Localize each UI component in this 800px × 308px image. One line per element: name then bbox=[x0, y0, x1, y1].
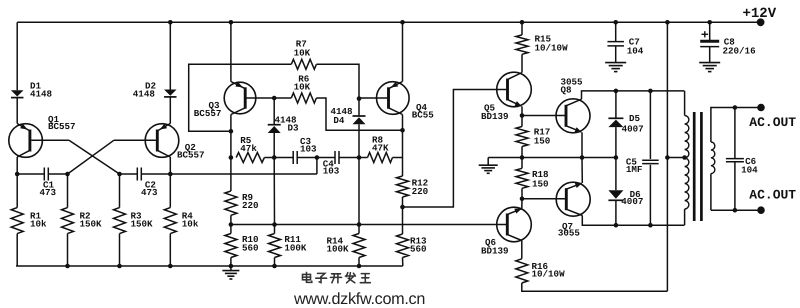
transistor Q1 BC557 bbox=[9, 124, 43, 158]
svg-text:4007: 4007 bbox=[621, 196, 643, 207]
wire Q6 base line bbox=[231, 224, 507, 226]
resistor R15 10/10W bbox=[521, 22, 523, 35]
resistor R10 560 bbox=[230, 225, 232, 234]
wire Q2 collector down bbox=[169, 157, 171, 174]
diode D4 4148 bbox=[358, 99, 360, 116]
node D5/D6 junction bbox=[614, 155, 619, 160]
node C5 bottom junction bbox=[648, 223, 653, 228]
wire cross-couple Q2 base to R2 node bbox=[68, 140, 115, 174]
resistor R4 10k bbox=[169, 174, 171, 208]
svg-text:473: 473 bbox=[40, 187, 57, 198]
node C1 right junction bbox=[65, 172, 70, 177]
node C5 top junction bbox=[648, 89, 653, 94]
capacitor C5 1MF bbox=[649, 91, 651, 159]
wire +12V riser bbox=[666, 22, 668, 291]
wire R7 right to Q4 base node bbox=[316, 64, 359, 98]
svg-text:47k: 47k bbox=[240, 143, 257, 154]
transformer T1 secondary bbox=[710, 107, 712, 142]
svg-text:+12V: +12V bbox=[743, 6, 777, 22]
node Q4 rail junction bbox=[400, 20, 405, 25]
wire rail to Q4 emitter bbox=[402, 22, 404, 81]
svg-text:BD139: BD139 bbox=[481, 111, 509, 122]
node C6 bottom bbox=[733, 208, 738, 213]
transistor Q8 3055 bbox=[556, 99, 590, 133]
capacitor C1 473 bbox=[17, 173, 44, 175]
node rail R3 bbox=[117, 264, 122, 269]
resistor R12 220 bbox=[397, 176, 409, 197]
resistor R8 47K bbox=[359, 157, 368, 159]
resistor R11 100K bbox=[273, 158, 275, 225]
terminal AC.OUT bottom bbox=[757, 206, 765, 214]
resistor R17 150 bbox=[521, 116, 523, 127]
node Q3 collector bottom junction bbox=[229, 155, 234, 160]
svg-text:150: 150 bbox=[534, 136, 551, 147]
transistor Q5 BD139 bbox=[497, 72, 532, 107]
node C7 rail junction bbox=[613, 20, 618, 25]
svg-text:560: 560 bbox=[242, 243, 259, 254]
wire Q8 emitter down bbox=[581, 132, 583, 157]
resistor R13 560 bbox=[402, 207, 404, 234]
wire center tap stub bbox=[667, 157, 684, 159]
transistor Q2 BC557 bbox=[145, 124, 179, 158]
svg-text:BC557: BC557 bbox=[177, 149, 205, 160]
node transformer center tap bbox=[682, 155, 687, 160]
svg-text:10K: 10K bbox=[294, 82, 311, 93]
wire D1 to Q1 emitter bbox=[16, 98, 18, 124]
node Q3 base junction bbox=[272, 96, 277, 101]
svg-text:D4: D4 bbox=[333, 115, 345, 126]
node R14 top junction bbox=[357, 222, 362, 227]
node C3/C4 midpoint bbox=[315, 155, 320, 160]
node C4 right / D4 anode junction bbox=[357, 155, 362, 160]
terminal AC.OUT top bbox=[757, 104, 765, 112]
node R17/R18 junction bbox=[520, 155, 525, 160]
wire R16 bottom to +12V riser bbox=[522, 283, 668, 291]
node R3 top junction bbox=[117, 172, 122, 177]
wire to Q7 base bbox=[522, 198, 565, 200]
ground symbol center line bbox=[487, 158, 489, 166]
wire R7 feedback loop left bbox=[189, 64, 292, 131]
svg-text:103: 103 bbox=[323, 166, 340, 177]
capacitor C2 473 bbox=[120, 173, 138, 175]
svg-text:4148: 4148 bbox=[133, 89, 156, 100]
svg-text:4148: 4148 bbox=[30, 89, 53, 100]
svg-text:100K: 100K bbox=[284, 243, 307, 254]
wire rail to D2 bbox=[169, 22, 171, 89]
transistor Q7 3055 bbox=[556, 182, 590, 216]
svg-text:D3: D3 bbox=[288, 122, 300, 133]
diode D6 4007 bbox=[615, 158, 617, 191]
node D4 top / Q4 base bbox=[357, 96, 362, 101]
wire secondary bottom to AC.OUT bbox=[711, 209, 761, 211]
wire Q6 emitter up bbox=[521, 199, 523, 209]
resistor R2 150K bbox=[67, 174, 69, 208]
svg-text:150K: 150K bbox=[131, 218, 154, 229]
wire Q8 collector to transformer top bbox=[582, 91, 685, 99]
node riser / center tap junction bbox=[665, 155, 670, 160]
transformer T1 core bbox=[693, 112, 696, 221]
node Q2 collector junction bbox=[168, 172, 173, 177]
svg-text:560: 560 bbox=[410, 244, 427, 255]
node R15 rail junction bbox=[520, 20, 525, 25]
svg-text:AC.OUT: AC.OUT bbox=[749, 115, 796, 130]
svg-text:150: 150 bbox=[532, 179, 549, 190]
svg-text:104: 104 bbox=[741, 164, 758, 175]
wire left drop to D1 bbox=[16, 22, 18, 90]
diode D5 4007 bbox=[615, 91, 617, 118]
svg-text:10k: 10k bbox=[182, 218, 199, 229]
svg-text:100K: 100K bbox=[327, 244, 350, 255]
wire top +12V rail bbox=[17, 21, 760, 23]
wire rail to Q3 emitter bbox=[230, 22, 232, 81]
ground symbol C7 bbox=[615, 57, 617, 63]
svg-text:3055: 3055 bbox=[558, 228, 581, 239]
svg-text:10/10W: 10/10W bbox=[532, 269, 566, 280]
svg-text:104: 104 bbox=[627, 46, 644, 57]
node rail R4 bbox=[168, 264, 173, 269]
wire Q5 emitter to Q8 base bbox=[522, 115, 565, 117]
resistor R18 150 bbox=[521, 158, 523, 169]
node C6 top bbox=[733, 105, 738, 110]
svg-text:BC557: BC557 bbox=[48, 121, 76, 132]
node D6 bottom junction bbox=[614, 223, 619, 228]
capacitor C6 104 bbox=[734, 108, 736, 159]
svg-text:BC55: BC55 bbox=[412, 110, 435, 121]
wire cross-couple Q1 base to R3 node bbox=[69, 140, 120, 174]
diode D3 4148 bbox=[273, 98, 275, 125]
node +12V riser rail junction bbox=[665, 20, 670, 25]
node C8 rail junction bbox=[707, 20, 712, 25]
svg-text:BD139: BD139 bbox=[481, 245, 509, 256]
node D2 rail junction bbox=[168, 20, 173, 25]
svg-text:220: 220 bbox=[242, 200, 259, 211]
node Q1 collector junction bbox=[15, 172, 20, 177]
transformer T1 primary bbox=[684, 91, 686, 116]
wire emitter center line bbox=[488, 157, 582, 159]
node rail R14 bbox=[357, 264, 362, 269]
node D5 top junction bbox=[614, 89, 619, 94]
svg-text:10k: 10k bbox=[30, 218, 47, 229]
resistor R6 10K bbox=[274, 97, 291, 99]
resistor R3 150K bbox=[119, 174, 121, 208]
svg-text:220: 220 bbox=[412, 186, 429, 197]
node Q3 rail junction bbox=[229, 20, 234, 25]
resistor R16 10/10W bbox=[521, 241, 523, 259]
node R12 bottom junction bbox=[400, 205, 405, 210]
wire bottom ground rail bbox=[16, 265, 403, 267]
node Q5 emitter junction bbox=[521, 107, 523, 116]
diode D2 bbox=[164, 90, 177, 96]
node Q7/Q8 emitter junction bbox=[580, 155, 585, 160]
svg-text:BC557: BC557 bbox=[194, 108, 222, 119]
transistor Q3 BC557 bbox=[224, 82, 256, 114]
svg-text:www.dzkfw.com.cn: www.dzkfw.com.cn bbox=[293, 290, 425, 308]
resistor R7 10K bbox=[291, 59, 316, 69]
wire R12 node to Q5 base bbox=[403, 90, 507, 208]
svg-text:10K: 10K bbox=[294, 47, 311, 58]
node Q4 collector junction bbox=[400, 128, 405, 133]
node Q6 collector / Q7 base junction bbox=[520, 196, 525, 201]
node R11 top junction bbox=[272, 222, 277, 227]
resistor R14 100K bbox=[358, 158, 360, 234]
transistor Q4 BC55 bbox=[377, 82, 410, 115]
node rail R10 bbox=[229, 264, 234, 269]
ground symbol C8 bbox=[709, 57, 711, 63]
capacitor C7 104 bbox=[615, 22, 617, 41]
capacitor C8 220/16 electrolytic bbox=[709, 22, 711, 40]
svg-text:220/16: 220/16 bbox=[723, 46, 756, 57]
svg-text:473: 473 bbox=[141, 187, 158, 198]
node Q3 collector / R7 tap bbox=[229, 129, 234, 134]
wire Q7 emitter up to center line bbox=[581, 158, 583, 184]
node rail R11 bbox=[272, 264, 277, 269]
svg-text:47K: 47K bbox=[372, 143, 389, 154]
resistor R1 10k bbox=[16, 174, 18, 208]
node rail R2 bbox=[65, 264, 70, 269]
wire Q7 collector to transformer bottom bbox=[582, 216, 684, 226]
wire Q1 collector down bbox=[16, 157, 18, 174]
ground symbol bottom rail bbox=[230, 266, 232, 271]
resistor R9 220 bbox=[230, 158, 232, 192]
node R9/R10 junction bbox=[229, 222, 234, 227]
svg-text:150K: 150K bbox=[80, 218, 103, 229]
wire Q4 collector down bbox=[402, 115, 404, 177]
terminal +12V bbox=[757, 18, 765, 26]
capacitor C3 103 bbox=[292, 151, 294, 164]
diode D1 bbox=[11, 90, 24, 96]
capacitor C4 103 bbox=[317, 157, 335, 159]
wire secondary top to AC.OUT bbox=[711, 107, 761, 109]
svg-text:AC.OUT: AC.OUT bbox=[749, 188, 796, 203]
watermark text dianzikaifawang bbox=[303, 272, 371, 282]
svg-text:Q8: Q8 bbox=[561, 85, 573, 96]
resistor R5 47k bbox=[236, 153, 264, 163]
transistor Q6 BD139 bbox=[497, 207, 532, 242]
svg-text:10/10W: 10/10W bbox=[535, 43, 569, 54]
wire D2 to Q2 emitter bbox=[169, 97, 171, 124]
wire Q3 collector down bbox=[230, 115, 232, 158]
wire Q2 collector to C3/C4 midpoint bbox=[170, 173, 317, 175]
svg-text:1MF: 1MF bbox=[626, 164, 643, 175]
svg-text:4007: 4007 bbox=[622, 123, 644, 134]
node D3 bottom junction bbox=[272, 155, 277, 160]
wire R6 right to Q4 collector bbox=[316, 98, 402, 130]
svg-text:103: 103 bbox=[300, 143, 317, 154]
